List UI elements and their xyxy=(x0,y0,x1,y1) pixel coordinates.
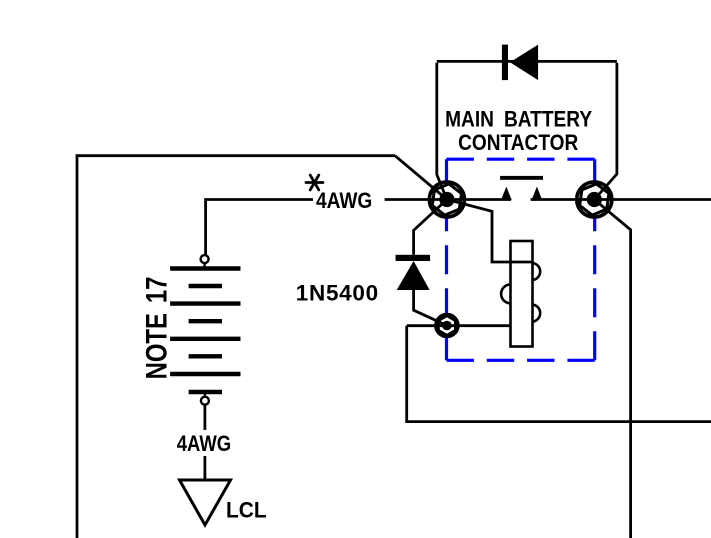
svg-text:MAIN BATTERY: MAIN BATTERY xyxy=(445,107,592,132)
terminal T3 (coil terminal) white base xyxy=(436,314,459,337)
wire: T2 to bottom right vertical xyxy=(594,200,630,538)
diode D2 triangle xyxy=(397,261,430,290)
diode D1 triangle xyxy=(510,45,538,81)
terminal hexagons T1 T2 T3 xyxy=(431,182,610,336)
contact bar xyxy=(500,176,543,180)
battery stub bottom xyxy=(204,392,206,397)
wire: bottom-left drop from coil lead xyxy=(405,326,408,422)
wire: T1 to diode D2 diagonal xyxy=(414,200,447,255)
wire: diode D2 anode to coil terminal T3 xyxy=(414,289,447,326)
terminal T3 center dot xyxy=(442,321,452,331)
svg-text:4AWG: 4AWG xyxy=(316,189,372,214)
wire: top-left horizontal xyxy=(76,154,395,157)
wire: bus into terminal T1 xyxy=(385,198,447,201)
terminal T1 center dot xyxy=(439,192,454,207)
contactor enclosure (blue dashed box) xyxy=(447,159,595,360)
wire: contact right stub to right edge xyxy=(531,198,711,201)
wire: battery negative lead upper xyxy=(203,405,206,430)
diode D2 1N5400 cathode bar xyxy=(396,255,431,261)
battery stub top xyxy=(203,263,205,269)
coil bobbin rect xyxy=(511,241,533,347)
wire: contact left stub xyxy=(447,198,511,201)
label asterisk xyxy=(306,175,323,190)
battery plates xyxy=(170,269,240,393)
terminal T2 (right contactor stud) white base xyxy=(577,182,612,217)
wire: coil bottom lead through T3 xyxy=(407,324,511,327)
battery B1 top terminal circle xyxy=(201,255,209,263)
wire: left outer vertical xyxy=(76,156,79,538)
coil loop right 2 xyxy=(533,305,541,322)
svg-text:CONTACTOR: CONTACTOR xyxy=(458,131,578,156)
wire: T1 to coil top diagonal xyxy=(447,200,533,263)
wire: bottom horizontal to right edge xyxy=(405,420,711,423)
coil loop left xyxy=(501,285,510,304)
wire: suppression loop right vertical xyxy=(594,63,617,200)
svg-text:NOTE 17: NOTE 17 xyxy=(140,277,173,380)
wire: suppression loop left vertical xyxy=(437,63,447,200)
terminal T1 (left contactor stud) white base xyxy=(429,182,464,217)
wire: battery riser corner xyxy=(206,200,313,255)
terminal T2 center dot xyxy=(587,192,602,207)
svg-text:LCL: LCL xyxy=(226,497,267,523)
coil loop right 1 xyxy=(533,263,541,280)
battery B1 bottom terminal circle xyxy=(201,397,209,405)
svg-text:4AWG: 4AWG xyxy=(177,431,231,456)
wire: battery negative lead lower xyxy=(203,456,206,480)
contact pole arrow left xyxy=(502,188,511,199)
wire: diagonal into terminal T1 from top-left xyxy=(395,156,447,200)
ground LCL triangle xyxy=(180,480,231,525)
wire: suppression loop top xyxy=(437,60,617,63)
svg-text:1N5400: 1N5400 xyxy=(296,280,379,305)
diode D1 (top, cathode bar) xyxy=(502,45,508,81)
contact pole arrow right xyxy=(532,188,541,199)
